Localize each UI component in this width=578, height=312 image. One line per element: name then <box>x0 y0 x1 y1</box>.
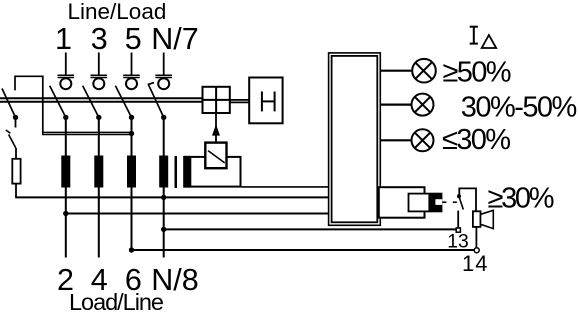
alarm relay armature box <box>409 194 442 212</box>
switch blade pole 3 <box>115 86 131 118</box>
junction dot pole 3 <box>129 115 134 120</box>
relay (trip) box with diagonal <box>205 143 226 169</box>
CT primary bar pole N <box>159 156 168 188</box>
svg-text:Line/Load: Line/Load <box>68 0 167 24</box>
switch blade pole N with tick <box>148 83 164 118</box>
svg-text:Load/Line: Load/Line <box>69 289 164 312</box>
wire to lamp 3 <box>380 139 411 141</box>
svg-text:≤30%: ≤30% <box>442 124 511 156</box>
alarm contact pivot dot <box>457 194 461 198</box>
junction dot wire D pole 3 <box>129 247 134 252</box>
test circuit switch blade <box>2 89 16 118</box>
alarm contact upper wire <box>459 188 476 211</box>
junction dot test branch <box>13 115 18 120</box>
terminal 1 top stub and clamp <box>58 53 75 90</box>
wire pole 1 vertical <box>65 117 67 257</box>
symbol I-delta <box>470 27 478 44</box>
wire buzzer to terminal 14 <box>475 227 477 248</box>
terminal 14 circle <box>474 248 479 253</box>
svg-text:N/7: N/7 <box>151 22 198 56</box>
resistor test <box>12 159 20 184</box>
buzzer horn <box>481 210 494 228</box>
terminal 5 top stub and clamp <box>123 53 140 90</box>
junction dot pole 1 <box>63 115 68 120</box>
svg-text:13: 13 <box>447 232 468 253</box>
CT primary bar pole 3 <box>127 156 136 188</box>
electronics block outer <box>329 53 381 225</box>
wire cross box to H upper <box>230 99 249 101</box>
test double wire lower <box>42 134 132 136</box>
CT secondary winding black band <box>183 156 191 188</box>
switch blade pole 2 <box>83 86 99 118</box>
wire A resistor to electronics <box>15 196 328 198</box>
CT primary bar pole 2 <box>94 156 103 188</box>
wire CT secondary to electronics <box>242 186 329 188</box>
alarm relay armature black end <box>428 194 441 212</box>
wire C pole N to terminal 13 <box>164 228 457 230</box>
svg-text:5: 5 <box>125 22 142 56</box>
mechanical link dashes <box>443 201 457 203</box>
junction dot pole N <box>161 115 166 120</box>
wire pole N vertical <box>163 117 165 257</box>
wire to lamp 1 <box>380 70 412 72</box>
trip coil cross box <box>203 87 230 113</box>
svg-text:3: 3 <box>91 22 108 56</box>
junction dot wire A pole N <box>161 195 166 200</box>
terminal 3 top stub and clamp <box>91 53 108 90</box>
test circuit top box <box>15 76 43 134</box>
bus line upper <box>0 97 203 99</box>
wire D pole 3 to terminal 14 <box>132 249 475 251</box>
electronics block inner <box>332 56 378 222</box>
svg-text:30%-50%: 30%-50% <box>461 92 578 124</box>
wire pole 2 vertical <box>98 117 100 257</box>
junction dot wire C pole N <box>161 227 166 232</box>
CT core line <box>175 156 178 188</box>
junction dot pole 2 <box>96 115 101 120</box>
H box <box>249 78 282 124</box>
wire B pole 1 to electronics <box>66 213 329 215</box>
wire pole 3 vertical <box>131 117 133 250</box>
svg-text:14: 14 <box>462 251 488 276</box>
buzzer body <box>473 211 481 227</box>
svg-text:≥50%: ≥50% <box>443 57 512 89</box>
lamp 2 <box>412 94 434 116</box>
test button blade with tick <box>6 130 16 148</box>
wire test branch vertical <box>15 117 17 127</box>
lamp 1 <box>412 59 436 83</box>
alarm relay coil box <box>379 187 425 218</box>
svg-text:1: 1 <box>55 22 72 56</box>
lamp 3 <box>412 129 434 151</box>
CT secondary box <box>184 157 240 187</box>
H glyph <box>262 92 275 112</box>
CT primary bar pole 1 <box>61 156 70 188</box>
wire cross box to H lower <box>230 101 249 103</box>
svg-text:≥30%: ≥30% <box>488 183 555 215</box>
alarm contact lower wire <box>457 211 459 228</box>
junction dot pole 3 test tap <box>129 131 134 136</box>
alarm relay armature notch <box>435 199 442 205</box>
wire to lamp 2 <box>380 103 411 105</box>
alarm contact blade <box>459 197 463 210</box>
switch blade pole 1 <box>50 86 66 118</box>
bus line lower <box>0 101 203 103</box>
arrowhead up <box>212 124 220 135</box>
symbol delta triangle <box>482 35 497 48</box>
terminal 13 square <box>456 228 460 232</box>
wire above resistor <box>15 148 17 159</box>
wire below resistor <box>15 184 17 198</box>
wire trip link vertical <box>215 113 217 143</box>
test double wire upper <box>44 131 132 133</box>
terminal N/7 top stub and clamp <box>155 53 172 90</box>
junction dot wire B pole 1 <box>63 211 68 216</box>
